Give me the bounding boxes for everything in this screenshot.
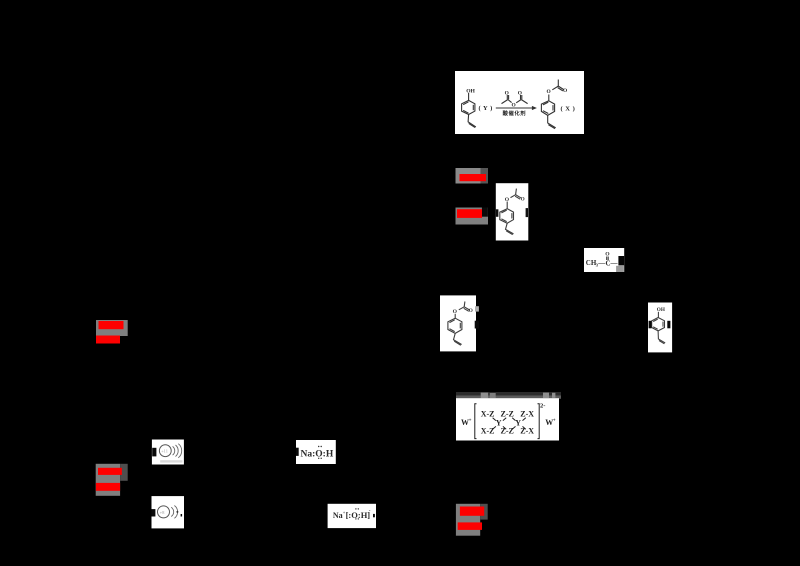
svg-text:Z-Z: Z-Z <box>501 427 514 436</box>
svg-text:O: O <box>521 196 525 202</box>
Na+[OH]- electron formula box <box>328 504 376 528</box>
svg-text:Na:O:H: Na:O:H <box>301 449 334 459</box>
phenol structure box <box>648 303 672 353</box>
svg-text:+11: +11 <box>161 449 168 454</box>
svg-text:+: + <box>469 419 472 424</box>
NaOH electron formula box <box>296 440 336 464</box>
svg-text:Z-X: Z-X <box>520 427 534 436</box>
phenol Y ring <box>462 100 475 114</box>
svg-text:+: + <box>553 419 556 424</box>
svg-text:O: O <box>505 197 510 203</box>
reaction scheme box (Y)->(X) <box>103 9 584 135</box>
red highlight block 1 (top right) <box>456 168 489 184</box>
anhydride <box>506 95 508 99</box>
atom shell diagram box 2 <box>152 496 185 528</box>
svg-text:Na: Na <box>333 511 343 520</box>
svg-text:O: O <box>512 102 516 108</box>
red highlight block 2 <box>456 208 489 225</box>
svg-text:X-Z: X-Z <box>481 427 495 436</box>
gray caption strip <box>456 392 561 399</box>
svg-text:O: O <box>563 88 567 94</box>
svg-text:O: O <box>469 308 473 314</box>
svg-text:O: O <box>453 309 458 315</box>
svg-text:( Y ): ( Y ) <box>479 105 493 112</box>
product acetate <box>102 8 104 10</box>
W complex box <box>456 398 559 440</box>
svg-text:O: O <box>518 91 522 97</box>
atom shell diagram box 1 <box>152 440 184 465</box>
acetate structure box A <box>496 183 529 240</box>
svg-text:+8: +8 <box>160 510 166 515</box>
svg-text:O: O <box>547 89 551 95</box>
red highlight block left 2 <box>96 464 128 496</box>
svg-text:Z-Z: Z-Z <box>501 409 514 418</box>
svg-text:O: O <box>505 91 509 97</box>
red highlight block left 1 <box>96 320 128 344</box>
svg-text:OH: OH <box>657 307 665 313</box>
acetate structure box B <box>440 295 479 351</box>
svg-text:X-Z: X-Z <box>481 409 495 418</box>
red highlight block right bottom <box>456 504 488 536</box>
svg-text:酸催化剂: 酸催化剂 <box>503 109 527 117</box>
svg-text:Z-X: Z-X <box>520 409 534 418</box>
arrow <box>496 107 535 109</box>
CH3-CO- fragment box <box>584 248 624 272</box>
svg-text:OH: OH <box>466 88 475 94</box>
svg-text:( X ): ( X ) <box>561 105 576 112</box>
svg-text:2-: 2- <box>540 403 545 410</box>
